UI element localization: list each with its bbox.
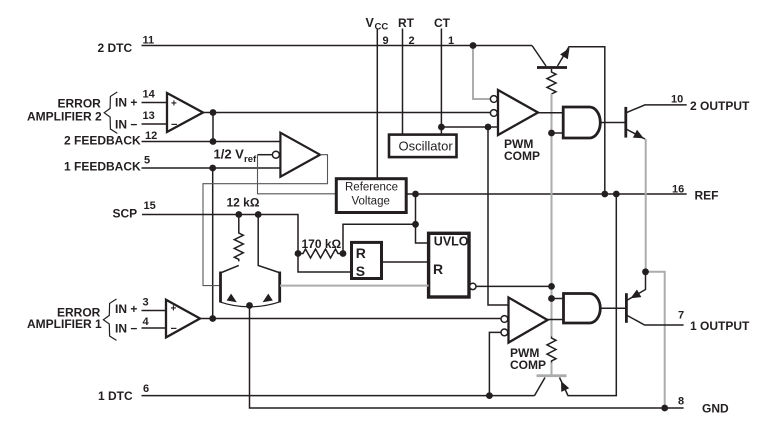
wire PWM comp 1 output to AND1 <box>548 319 564 321</box>
svg-text:ref: ref <box>244 154 257 165</box>
AND gate 2 <box>563 107 600 138</box>
transistor output 1 base bar <box>625 293 628 323</box>
junction dot 2 feedback <box>210 138 217 145</box>
svg-text:IN −: IN − <box>115 118 137 132</box>
label PWM COMP 1 <box>510 346 546 372</box>
wire error amp 1 output to PWM comp 1 <box>200 318 501 320</box>
svg-text:+: + <box>171 99 177 110</box>
svg-text:12: 12 <box>145 130 157 142</box>
bubble input 2 of PWM comp 2 <box>490 110 497 117</box>
wire CT vertical (pin 1) <box>440 29 442 135</box>
junction dot sawtooth branch <box>485 124 492 131</box>
transistor diff pair left base bar <box>219 272 222 303</box>
brace for error amplifier 2 inputs <box>104 92 117 133</box>
svg-text:COMP: COMP <box>510 358 546 372</box>
bubble input 1 of PWM comp 1 <box>501 316 508 323</box>
svg-text:Voltage: Voltage <box>352 196 390 208</box>
op-amp error amplifier 2 <box>167 93 203 132</box>
svg-text:3: 3 <box>143 297 149 309</box>
svg-text:2 OUTPUT: 2 OUTPUT <box>690 99 750 113</box>
wire latch output to UVLO R <box>382 261 429 263</box>
wire 1/2 Vref feed from reference voltage <box>258 155 337 194</box>
label IN+ 14 (error amp 2) <box>115 89 156 110</box>
svg-text:S: S <box>356 263 365 279</box>
label 1 DTC 6 <box>98 383 149 403</box>
wire latch S input <box>298 254 352 273</box>
wire SCP comparator output loop to current source base <box>203 155 328 286</box>
junction dot REF / clamp 2 emitter <box>601 191 608 198</box>
wire output transistor 2 collector to pin 10 <box>626 105 687 113</box>
svg-text:15: 15 <box>144 200 156 212</box>
svg-text:10: 10 <box>671 94 683 106</box>
svg-text:IN +: IN + <box>115 302 137 316</box>
wire 1/2 Vref label to bubble <box>258 154 273 156</box>
svg-text:AMPLIFIER 1: AMPLIFIER 1 <box>27 317 102 331</box>
wire 2DTC clamp transistor collector <box>532 46 546 67</box>
svg-text:6: 6 <box>143 383 149 395</box>
UVLO box <box>429 233 469 297</box>
wire PWM comp 2 output to AND2 <box>538 112 563 114</box>
svg-text:−: − <box>171 323 177 335</box>
svg-text:1 DTC: 1 DTC <box>98 389 133 403</box>
wire 1 DTC (pin 6) <box>142 395 535 397</box>
wire 12k to left transistor collector <box>222 265 239 272</box>
pin label 2 DTC <box>98 35 155 56</box>
wire RT vertical (pin 2) <box>402 29 404 135</box>
junction dot 170k left <box>295 250 302 257</box>
svg-text:1 FEEDBACK: 1 FEEDBACK <box>64 160 141 174</box>
op-amp error amplifier 1 <box>166 300 200 338</box>
svg-text:R: R <box>356 245 366 261</box>
transistor 1DTC clamp base bar (gray) <box>537 374 567 377</box>
label IN- 4 (error amp 1) <box>115 316 150 336</box>
svg-text:GND: GND <box>702 402 729 416</box>
svg-text:2: 2 <box>409 35 415 47</box>
svg-text:13: 13 <box>143 110 155 122</box>
svg-text:−: − <box>171 119 177 131</box>
junction dot 170k right <box>340 250 347 257</box>
junction dot CT sawtooth <box>438 124 445 131</box>
junction dot reference branch <box>412 221 419 228</box>
label 1/2 Vref <box>214 147 257 166</box>
wire SCP (pin 15) <box>142 215 298 254</box>
svg-text:Reference: Reference <box>345 182 398 194</box>
wire AND1 input from bus <box>552 298 564 300</box>
svg-text:COMP: COMP <box>504 149 540 163</box>
svg-text:SCP: SCP <box>113 207 138 221</box>
pin label 8 GND <box>678 396 729 416</box>
wire 1DTC clamp emitter to REF <box>560 194 617 396</box>
latch R-S box <box>352 242 382 279</box>
svg-text:16: 16 <box>672 184 684 196</box>
brace for error amplifier 1 inputs <box>103 299 116 340</box>
svg-text:1/2 V: 1/2 V <box>214 147 245 162</box>
UVLO output bubble <box>470 283 476 289</box>
junction dot UVLO output on bus <box>548 283 555 290</box>
gray wire right base to UVLO <box>280 285 429 287</box>
pin label CT 1 <box>434 16 454 47</box>
wire 2DTC clamp emitter to REF <box>558 47 605 194</box>
PWM comparator 1 <box>509 298 548 343</box>
wire UVLO output to gray bus <box>476 285 552 287</box>
resistor 12 k ohm <box>234 231 243 261</box>
svg-text:REF: REF <box>695 189 719 203</box>
wire 1IN- <box>142 327 167 329</box>
wire VCC vertical (pin 9) <box>376 29 378 179</box>
wire 2FB junction vertical <box>212 113 214 142</box>
arrow output transistor 1 emitter <box>631 290 642 299</box>
svg-text:CT: CT <box>434 16 451 30</box>
junction dot error amp 2 output <box>210 109 217 116</box>
wire 2 FEEDBACK to SCP comparator <box>142 141 281 143</box>
svg-text:RT: RT <box>398 16 415 30</box>
pin label 16 REF <box>672 184 719 203</box>
wire output transistor 2 emitter <box>626 129 645 139</box>
junction dot output 1 emitter <box>642 268 649 275</box>
wire 1FB to error amp 1 output vertical <box>212 168 214 319</box>
bubble input 2 of PWM comp 1 <box>501 329 508 336</box>
svg-text:7: 7 <box>678 310 684 322</box>
oscillator box <box>389 135 457 158</box>
reference voltage box <box>336 179 406 213</box>
wire AND1 output to output transistor 1 <box>600 307 625 309</box>
pin label RT 2 <box>398 16 415 47</box>
wire right transistor collector <box>258 215 279 273</box>
resistor 170 k ohm <box>298 249 343 258</box>
wire 2IN+ <box>142 102 168 104</box>
svg-text:AMPLIFIER 2: AMPLIFIER 2 <box>27 110 102 124</box>
transistor diff pair right base bar <box>278 272 281 303</box>
gray wire 2DTC to PWM comp 2 bubble <box>473 46 490 100</box>
wire 1IN+ <box>142 310 167 312</box>
svg-text:11: 11 <box>143 35 155 47</box>
transistor 2DTC clamp base bar <box>537 66 567 69</box>
SCP comparator (1/2 Vref buffer) <box>280 133 320 177</box>
wire reference to latch R input <box>343 224 416 253</box>
diff pair emitter arc <box>220 302 281 307</box>
arrow diff pair left emitter <box>227 294 237 303</box>
svg-text:9: 9 <box>383 35 389 47</box>
junction dot AND1 input on bus <box>548 295 555 302</box>
junction dot diff pair tail <box>246 302 253 309</box>
transistor output 2 base bar <box>624 107 627 138</box>
pin label VCC 9 <box>366 16 389 47</box>
junction dot GND <box>661 405 668 412</box>
junction dot REF / clamp 1 emitter <box>613 191 620 198</box>
svg-text:Oscillator: Oscillator <box>399 139 454 154</box>
arrow output transistor 2 emitter <box>633 130 644 139</box>
label 2 FEEDBACK 12 <box>64 130 157 148</box>
wire 2IN- <box>142 123 168 125</box>
svg-text:+: + <box>171 304 177 315</box>
svg-text:4: 4 <box>143 316 150 328</box>
svg-text:2 DTC: 2 DTC <box>98 41 133 55</box>
wire CT sawtooth to PWM comp 2 <box>441 126 498 128</box>
label IN- 13 (error amp 2) <box>115 110 155 132</box>
junction dot 12k top <box>235 211 242 218</box>
label SCP 15 <box>113 200 156 221</box>
junction dot 1 feedback <box>209 165 216 172</box>
label ERROR AMPLIFIER 1 <box>27 306 102 332</box>
arrow 1DTC clamp emitter <box>561 381 569 392</box>
wire diff pair tail to GND line <box>250 306 684 409</box>
svg-text:V: V <box>366 16 375 30</box>
svg-text:5: 5 <box>144 155 150 167</box>
wire 1 FEEDBACK to SCP comparator <box>142 167 281 169</box>
gray bus lower lead to clamp 1 <box>551 363 553 375</box>
arrow diff pair right emitter <box>263 294 273 303</box>
svg-text:UVLO: UVLO <box>434 235 469 249</box>
label 1 FEEDBACK 5 <box>64 155 150 174</box>
wire sawtooth vertical to PWM comp 1 <box>488 127 509 305</box>
wire error amp 2 output to PWM comp 2 <box>203 112 491 114</box>
wire reference output to UVLO <box>416 194 429 243</box>
AND gate 1 <box>564 294 601 324</box>
svg-text:R: R <box>433 261 443 277</box>
wire 1DTC clamp collector <box>535 378 546 396</box>
svg-text:12 kΩ: 12 kΩ <box>227 196 260 210</box>
PWM comparator 2 <box>498 90 538 135</box>
gray wire to GND <box>646 272 665 408</box>
svg-text:CC: CC <box>375 22 389 33</box>
gray wire emitter 2 down <box>645 139 647 272</box>
wire 2 DTC (pin 11) horizontal <box>142 45 533 47</box>
junction dot 1DTC branch <box>486 392 493 399</box>
label IN+ 3 (error amp 1) <box>115 297 149 317</box>
pin label 10 2 OUTPUT <box>671 94 750 114</box>
svg-text:IN −: IN − <box>115 322 137 336</box>
junction dot right collector top <box>255 211 262 218</box>
svg-text:2 FEEDBACK: 2 FEEDBACK <box>64 134 141 148</box>
svg-text:14: 14 <box>143 89 156 101</box>
label ERROR AMPLIFIER 2 <box>27 97 102 124</box>
wire 12k top lead <box>238 215 240 232</box>
junction dot REF at reference voltage output <box>412 191 419 198</box>
wire REF output (pin 16) <box>406 193 687 195</box>
svg-text:IN +: IN + <box>115 96 137 110</box>
junction dot error amp 1 output <box>209 315 216 322</box>
bubble input 1 of PWM comp 2 <box>490 96 497 103</box>
wire AND2 input from bus <box>552 132 564 134</box>
svg-text:1 OUTPUT: 1 OUTPUT <box>690 319 750 333</box>
svg-text:8: 8 <box>678 396 684 408</box>
resistor top clamp base <box>547 69 556 94</box>
junction dot 2DTC/gray <box>470 42 477 49</box>
svg-text:ERROR: ERROR <box>58 97 102 111</box>
pin label 7 1 OUTPUT <box>678 310 750 334</box>
wire output transistor 1 emitter up <box>626 272 645 301</box>
wire AND2 output to output transistor 2 <box>600 122 624 124</box>
svg-text:1: 1 <box>448 35 454 47</box>
resistor bottom clamp base <box>547 337 556 363</box>
wire output transistor 1 collector to pin 7 <box>627 315 684 325</box>
wire 1DTC branch to PWM comp 1 bubble <box>489 332 501 395</box>
label PWM COMP 2 <box>504 137 540 163</box>
arrow 2DTC clamp emitter <box>560 48 569 59</box>
gray bus UVLO to gates <box>551 94 553 337</box>
junction dot AND2 input on bus <box>548 130 555 137</box>
input bubble of SCP comparator <box>272 151 279 158</box>
